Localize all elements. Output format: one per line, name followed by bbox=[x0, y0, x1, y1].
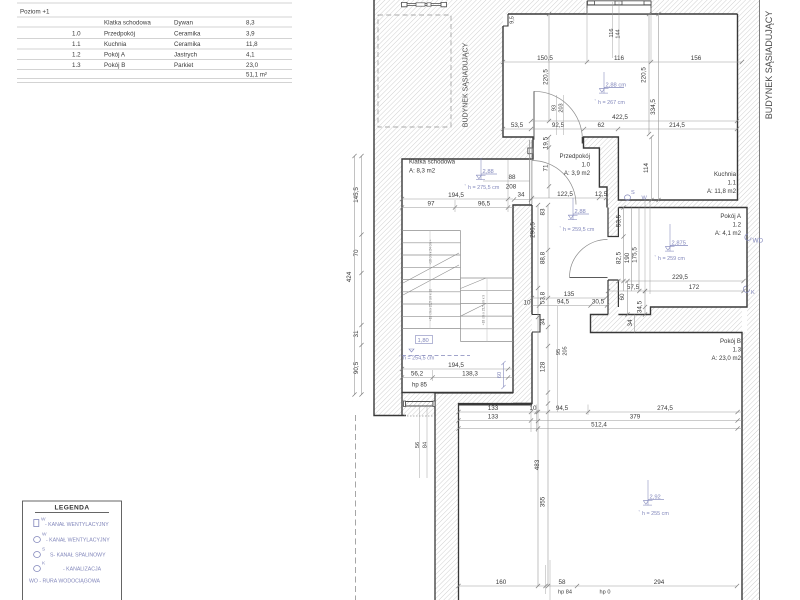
vertical dim 34,5 bbox=[637, 289, 648, 317]
svg-text:220,5: 220,5 bbox=[543, 69, 550, 85]
svg-text:70: 70 bbox=[353, 249, 360, 257]
svg-text:190: 190 bbox=[624, 252, 631, 263]
svg-text:94,5: 94,5 bbox=[556, 405, 569, 412]
svg-text:30,5: 30,5 bbox=[592, 299, 605, 306]
svg-text:1.1: 1.1 bbox=[72, 41, 81, 48]
dimension 94,5 30,5 corridor bbox=[532, 299, 609, 308]
svg-text:97: 97 bbox=[427, 201, 435, 208]
door przedpokoj: frame and swing arc bbox=[530, 140, 576, 205]
wall band between room A and room B bbox=[591, 307, 743, 333]
svg-text:h = 255 cm: h = 255 cm bbox=[642, 511, 669, 517]
blue vent symbol S kitchen bbox=[625, 190, 636, 200]
svg-text:205: 205 bbox=[563, 346, 569, 355]
blue dim 60 stair bottom bbox=[497, 361, 506, 389]
legend row 3 circle S kanal spalinowy bbox=[34, 547, 106, 559]
svg-text:194,5: 194,5 bbox=[448, 362, 464, 369]
staircase right wall bbox=[513, 205, 532, 404]
svg-text:138,3: 138,3 bbox=[462, 371, 478, 378]
room B top dimension 133 10 94,5 274,5 bbox=[456, 405, 742, 414]
svg-text:96,5: 96,5 bbox=[478, 201, 491, 208]
dimension 122,5 12,5 hall bbox=[530, 191, 608, 200]
svg-text:h = 259 cm: h = 259 cm bbox=[658, 256, 685, 262]
svg-text:56: 56 bbox=[415, 442, 421, 448]
room B dimension 512,4 bbox=[456, 422, 742, 431]
svg-text:S- KANAŁ SPALINOWY: S- KANAŁ SPALINOWY bbox=[50, 553, 106, 559]
top exterior wall band right of window bbox=[651, 0, 742, 14]
vertical dim 175,5 bbox=[632, 208, 640, 292]
svg-text:Pokój B: Pokój B bbox=[720, 338, 741, 345]
svg-text:BUDYNEK SĄSIADUJĄCY: BUDYNEK SĄSIADUJĄCY bbox=[764, 11, 774, 120]
svg-text:90,5: 90,5 bbox=[353, 361, 360, 374]
svg-text:355: 355 bbox=[540, 496, 547, 507]
svg-text:K: K bbox=[751, 290, 755, 296]
svg-text:34: 34 bbox=[540, 318, 547, 326]
svg-text:10: 10 bbox=[529, 405, 537, 412]
svg-text:53,5: 53,5 bbox=[616, 214, 623, 227]
blue level annotation stair h=275,5 bbox=[465, 158, 500, 191]
svg-text:1.2: 1.2 bbox=[72, 52, 81, 59]
svg-text:83: 83 bbox=[540, 208, 547, 216]
blue symbol K right wall bbox=[743, 286, 755, 296]
svg-text:114: 114 bbox=[643, 162, 650, 173]
svg-text:4,1: 4,1 bbox=[246, 52, 255, 59]
staircase treads right flight bbox=[461, 278, 514, 342]
room label przedpokoj bbox=[560, 153, 591, 177]
vertical dim 34 band bbox=[627, 315, 635, 333]
blue level annotation kitchen h=267 bbox=[595, 72, 627, 106]
svg-text:1.0: 1.0 bbox=[582, 162, 591, 169]
door size 88 208 stair top bbox=[483, 174, 533, 202]
stair top dimension 97 96,5 bbox=[400, 201, 513, 210]
svg-text:3,9: 3,9 bbox=[246, 31, 255, 38]
stair flight separator and walking lines bbox=[430, 231, 487, 342]
room A left wall lower segment bbox=[608, 280, 618, 307]
stair break diagonals bbox=[403, 253, 486, 316]
svg-text:135: 135 bbox=[564, 291, 575, 298]
dimension 422,5 total bbox=[529, 114, 739, 123]
stair step annotations bbox=[429, 239, 486, 325]
vertical labels 116 144 window side bbox=[609, 2, 622, 58]
svg-text:Przedpokój: Przedpokój bbox=[104, 31, 135, 38]
svg-text:156: 156 bbox=[691, 55, 702, 62]
svg-text:12,5: 12,5 bbox=[595, 191, 608, 198]
svg-text:- KANAŁ WENTYLACYJNY: - KANAŁ WENTYLACYJNY bbox=[45, 522, 109, 528]
room A left wall upper segment bbox=[608, 208, 618, 237]
svg-text:84: 84 bbox=[423, 442, 429, 448]
svg-text:71: 71 bbox=[543, 164, 550, 172]
staircase treads left flight bbox=[402, 231, 461, 329]
dimension 229,5 room A bbox=[616, 274, 745, 283]
svg-text:62: 62 bbox=[597, 122, 605, 129]
vertical dims 53,5 82,5 door A jamb bbox=[616, 205, 626, 291]
svg-text:133: 133 bbox=[488, 414, 499, 421]
svg-text:h = 275,5 cm: h = 275,5 cm bbox=[468, 185, 500, 191]
room label pokoj A bbox=[715, 213, 742, 237]
legend row 1 square W kanal wentylacyjny bbox=[34, 517, 109, 528]
svg-text:1.2: 1.2 bbox=[733, 222, 742, 229]
svg-text:1.3: 1.3 bbox=[72, 62, 81, 69]
svg-text:116: 116 bbox=[609, 29, 615, 38]
blue level annotation room B h=255 bbox=[639, 480, 670, 517]
svg-text:WO - RURA WODOCIĄGOWA: WO - RURA WODOCIĄGOWA bbox=[29, 579, 101, 585]
svg-text:1.1: 1.1 bbox=[728, 180, 737, 187]
svg-text:Jastrych: Jastrych bbox=[174, 52, 198, 59]
svg-text:60: 60 bbox=[497, 372, 503, 378]
svg-text:LEGENDA: LEGENDA bbox=[54, 505, 89, 512]
svg-text:128: 128 bbox=[540, 361, 547, 372]
svg-text:220,5: 220,5 bbox=[641, 67, 648, 83]
dimension 135 corridor bbox=[530, 291, 608, 300]
room label kuchnia bbox=[707, 171, 737, 195]
svg-text:60: 60 bbox=[619, 293, 626, 301]
vertical dim 220,5 centre of top room bbox=[641, 12, 652, 136]
svg-text:172: 172 bbox=[689, 284, 700, 291]
vertical dim 190 bbox=[624, 208, 632, 292]
blue level annotation room A h=259 bbox=[655, 224, 689, 262]
svg-text:Poziom +1: Poziom +1 bbox=[20, 9, 50, 16]
svg-text:A: 3,9 m2: A: 3,9 m2 bbox=[564, 170, 591, 177]
vertical labels 95 205 corridor bbox=[556, 306, 569, 412]
svg-text:A: 11,8 m2: A: 11,8 m2 bbox=[707, 188, 737, 195]
svg-text:h = 267 cm: h = 267 cm bbox=[598, 100, 625, 106]
svg-text:S: S bbox=[42, 547, 45, 553]
svg-text:- KANAŁ WENTYLACYJNY: - KANAŁ WENTYLACYJNY bbox=[46, 538, 110, 544]
svg-text:hp 0: hp 0 bbox=[600, 590, 611, 596]
small pier on corridor bbox=[532, 315, 540, 333]
vertical dim column 296,5 bbox=[530, 203, 541, 588]
svg-text:Kuchnia: Kuchnia bbox=[104, 41, 127, 48]
extension lines room B top dims bbox=[433, 160, 650, 432]
dimension row top room widths 150,5 116 156 bbox=[501, 8, 744, 64]
svg-text:Przedpokój: Przedpokój bbox=[560, 153, 591, 160]
svg-text:+18 cm x 24 cm +: +18 cm x 24 cm + bbox=[429, 239, 433, 264]
svg-text:34: 34 bbox=[627, 319, 634, 327]
svg-text:51,1 m²: 51,1 m² bbox=[246, 72, 267, 79]
window in stair south wall bbox=[404, 401, 436, 416]
neighbouring building hatched block top-left with stair left wall bbox=[374, 0, 585, 416]
svg-text:h = 254,5 cm: h = 254,5 cm bbox=[403, 356, 435, 362]
svg-text:93: 93 bbox=[552, 105, 558, 111]
svg-text:160: 160 bbox=[496, 579, 507, 586]
svg-text:57,5: 57,5 bbox=[627, 284, 640, 291]
stair bottom dimension 194,5 bbox=[400, 362, 513, 371]
svg-text:34,5: 34,5 bbox=[637, 300, 644, 313]
stair top dimension 194,5 bbox=[400, 192, 513, 201]
svg-text:9,5: 9,5 bbox=[510, 16, 516, 24]
window in top wall of kitchen bbox=[587, 1, 651, 14]
svg-text:S: S bbox=[631, 190, 635, 196]
svg-text:W: W bbox=[642, 196, 648, 202]
svg-text:144: 144 bbox=[616, 29, 622, 38]
svg-text:+18 cm x 23,5 cm x 9: +18 cm x 23,5 cm x 9 bbox=[482, 295, 486, 326]
svg-text:1,80: 1,80 bbox=[418, 338, 429, 344]
wall outlines bbox=[374, 0, 760, 600]
svg-text:10: 10 bbox=[523, 300, 531, 307]
room B left wall and stair south band bbox=[402, 393, 532, 600]
door leaf dims 93 203 bbox=[552, 95, 565, 135]
svg-text:Kuchnia: Kuchnia bbox=[714, 171, 737, 178]
svg-text:A: 23,0 m2: A: 23,0 m2 bbox=[712, 355, 742, 362]
svg-text:h = 259,5 cm: h = 259,5 cm bbox=[563, 227, 595, 233]
svg-text:422,5: 422,5 bbox=[612, 114, 628, 121]
door top room: leaf and swing arc bbox=[534, 91, 582, 143]
dimension 57,5 172 room A bbox=[606, 284, 746, 293]
svg-text:92,5: 92,5 bbox=[552, 122, 565, 129]
svg-text:296,5: 296,5 bbox=[530, 222, 537, 238]
room label pokoj B bbox=[712, 338, 742, 362]
room B bottom dimension 160 58 294 bbox=[456, 560, 739, 600]
svg-text:512,4: 512,4 bbox=[591, 422, 607, 429]
room label klatka schodowa bbox=[409, 159, 456, 175]
svg-text:88: 88 bbox=[508, 174, 516, 181]
vertical dim 60 below room A bbox=[619, 279, 630, 317]
svg-text:A: 4,1 m2: A: 4,1 m2 bbox=[715, 230, 742, 237]
window dims 56 84 below stair bbox=[415, 406, 429, 478]
svg-text:274,5: 274,5 bbox=[657, 405, 673, 412]
svg-text:1.3: 1.3 bbox=[733, 347, 742, 354]
svg-text:53,8: 53,8 bbox=[540, 291, 547, 304]
svg-text:203: 203 bbox=[559, 103, 565, 112]
svg-text:214,5: 214,5 bbox=[669, 122, 685, 129]
svg-text:208: 208 bbox=[506, 184, 517, 191]
room B dimension 133 379 bbox=[456, 414, 742, 423]
door room A: leaf and swing arc bbox=[570, 240, 608, 278]
svg-text:31: 31 bbox=[353, 330, 360, 338]
vertical dim 220,5 left of top room bbox=[543, 12, 552, 123]
wall between hall and kitchen (L-shaped) with kitchen bottom band bbox=[584, 137, 748, 208]
svg-text:1.0: 1.0 bbox=[72, 31, 81, 38]
svg-text:56,2: 56,2 bbox=[411, 371, 424, 378]
svg-text:34: 34 bbox=[517, 192, 525, 199]
svg-text:194,5: 194,5 bbox=[448, 192, 464, 199]
blue symbol WD right wall bbox=[745, 234, 764, 245]
svg-text:95: 95 bbox=[556, 349, 562, 355]
window symbol in neighbour block top bbox=[402, 2, 447, 6]
svg-text:424: 424 bbox=[346, 271, 353, 282]
dimension row 53,5 92,5 62 214,5 bbox=[501, 122, 739, 131]
svg-text:23,0: 23,0 bbox=[246, 62, 259, 69]
svg-text:BUDYNEK SĄSIADUJĄCY: BUDYNEK SĄSIADUJĄCY bbox=[463, 42, 470, 127]
svg-text:145,5: 145,5 bbox=[353, 187, 360, 203]
svg-text:- KANALIZACJA: - KANALIZACJA bbox=[63, 567, 102, 573]
svg-text:88,8: 88,8 bbox=[540, 251, 547, 264]
small niche in stair top wall bbox=[528, 148, 533, 154]
svg-text:A: 8,3 m2: A: 8,3 m2 bbox=[409, 168, 436, 175]
svg-text:hp 85: hp 85 bbox=[412, 383, 428, 389]
vertical dim 114 kitchen bbox=[643, 135, 654, 202]
svg-text:hp 84: hp 84 bbox=[558, 590, 572, 596]
svg-text:294: 294 bbox=[654, 579, 665, 586]
svg-text:175,5: 175,5 bbox=[632, 247, 639, 263]
svg-text:133: 133 bbox=[488, 405, 499, 412]
svg-text:11,8: 11,8 bbox=[246, 41, 258, 48]
svg-text:Parkiet: Parkiet bbox=[174, 62, 194, 69]
svg-text:+18 cm x 23,5 cm x 10: +18 cm x 23,5 cm x 10 bbox=[429, 289, 433, 321]
legend row 2 circle W kanal wentylacyjny bbox=[34, 532, 111, 544]
svg-text:483: 483 bbox=[534, 459, 541, 470]
svg-text:19,5: 19,5 bbox=[543, 136, 550, 149]
svg-text:Ceramika: Ceramika bbox=[174, 41, 201, 48]
svg-text:379: 379 bbox=[630, 414, 641, 421]
legend row 4 circle K kanalizacja bbox=[34, 561, 102, 573]
svg-text:58: 58 bbox=[558, 579, 566, 586]
svg-text:WD: WD bbox=[753, 238, 764, 245]
svg-text:229,5: 229,5 bbox=[672, 274, 688, 281]
svg-text:Dywan: Dywan bbox=[174, 20, 193, 27]
svg-text:Pokój B: Pokój B bbox=[104, 62, 125, 69]
vertical dim column 83 88,8 53,8 34 128 483 355 bbox=[534, 203, 550, 588]
dashed outline inside neighbour block bbox=[378, 15, 451, 127]
right exterior wall strip (neighbour side) bbox=[738, 0, 761, 600]
vertical dims 19,5 and 71 przedpokoj bbox=[543, 135, 552, 198]
svg-text:Klatka schodowa: Klatka schodowa bbox=[409, 159, 456, 166]
svg-text:Klatka schodowa: Klatka schodowa bbox=[104, 20, 151, 27]
legend box bbox=[23, 501, 122, 600]
vertical dim 334,5 bbox=[650, 12, 661, 202]
stair bottom dimension 56,2 138,3 bbox=[400, 371, 513, 380]
dashed site boundary bottom left bbox=[355, 415, 357, 600]
svg-text:150,5: 150,5 bbox=[537, 55, 553, 62]
svg-text:53,5: 53,5 bbox=[511, 122, 524, 129]
blue stair level 1,80 with dashed line h=254,5 bbox=[399, 336, 470, 362]
svg-text:Pokój A: Pokój A bbox=[720, 213, 742, 220]
svg-text:334,5: 334,5 bbox=[650, 99, 657, 115]
svg-text:Ceramika: Ceramika bbox=[174, 31, 201, 38]
svg-text:116: 116 bbox=[614, 55, 625, 62]
left dim column 424 145,5 70 31 90,5 bbox=[346, 154, 364, 397]
room schedule table bbox=[17, 3, 292, 83]
blue level annotation przedpokoj h=259,5 bbox=[560, 198, 595, 233]
svg-text:Pokój A: Pokój A bbox=[104, 52, 126, 59]
svg-text:82,5: 82,5 bbox=[616, 251, 623, 264]
svg-text:8,3: 8,3 bbox=[246, 20, 255, 27]
svg-text:94,5: 94,5 bbox=[557, 299, 570, 306]
svg-text:122,5: 122,5 bbox=[557, 191, 573, 198]
